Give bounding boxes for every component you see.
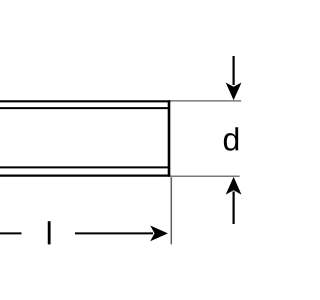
rod outer top line [0,100,170,102]
arrow right head [150,226,168,242]
dimension line l left segment [0,232,22,234]
label d [224,127,238,151]
extension line top (d) [171,100,242,102]
label l [48,221,51,244]
dimension line l right segment [75,232,153,234]
arrow down shaft [233,56,235,85]
extension line vertical (l) [170,177,172,244]
arrow down head [226,83,242,101]
extension line bottom (d) [171,175,240,177]
arrow up shaft [233,192,235,225]
rod outer bottom line [0,175,170,177]
rod inner bottom thread line [0,166,170,168]
rod right end edge [168,100,171,177]
rod inner top thread line [0,107,170,109]
arrow up head [226,177,242,195]
